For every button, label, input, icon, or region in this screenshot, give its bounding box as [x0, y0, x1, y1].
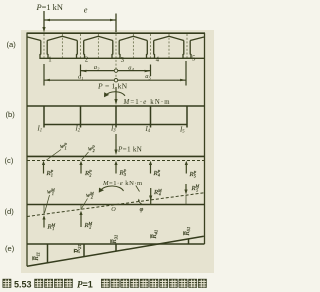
centerline tick for e dimension	[115, 14, 117, 33]
moment arrowhead	[104, 92, 109, 97]
ordinate girder 1	[47, 244, 49, 263]
rib girder 4	[147, 41, 155, 59]
tick at girder 4	[150, 65, 152, 77]
panel mid 3	[132, 34, 134, 58]
tick at girder 2	[80, 65, 82, 77]
zero line	[27, 243, 205, 245]
tick at girder 1	[43, 64, 45, 86]
moment arc M (over beam b)	[106, 92, 125, 96]
moment arc (d)	[101, 186, 124, 191]
svg-text:2: 2	[85, 57, 89, 64]
svg-text:e: e	[84, 5, 88, 14]
label R11 (rotated)	[33, 252, 41, 261]
svg-text:RM2: RM2	[84, 221, 93, 230]
svg-text:P=1 kN: P=1 kN	[36, 3, 63, 12]
soffit panel 2-3	[84, 36, 113, 40]
a5 arrowhead right	[180, 79, 185, 82]
svg-text:O: O	[111, 206, 116, 213]
svg-text:RP1: RP1	[46, 169, 54, 178]
svg-text:P=1: P=1	[77, 279, 93, 289]
svg-text:RM4: RM4	[153, 188, 162, 197]
reaction arrow R4P	[150, 164, 152, 174]
rib girder 5	[183, 41, 191, 59]
panel mid 4	[168, 34, 170, 58]
leader w2P	[82, 152, 89, 160]
a4 arrowhead right	[145, 70, 150, 73]
support tick I4	[150, 106, 152, 128]
label R51 (rotated)	[184, 227, 192, 237]
P arrow at centreline down to beam (b)	[115, 87, 117, 101]
svg-text:P=1 kN: P=1 kN	[117, 145, 143, 153]
svg-text:4: 4	[156, 57, 160, 64]
svg-text:wP1: wP1	[60, 142, 67, 151]
leader w1M	[45, 195, 50, 213]
ordinate girder 5	[188, 239, 190, 244]
soffit panel 4-5	[154, 36, 184, 40]
svg-text:RP2: RP2	[84, 169, 92, 178]
support tick I2	[80, 106, 82, 128]
ordinate girder 4	[150, 244, 152, 246]
support tick I5	[186, 106, 188, 128]
e dim arrowhead right	[110, 19, 115, 22]
caption: 图 5.53	[3, 279, 12, 288]
reaction arrow R4M (down onto deflected line)	[150, 188, 152, 205]
moment arrowhead (d)	[99, 188, 104, 193]
support tick I1	[43, 106, 45, 128]
svg-text:1: 1	[48, 57, 51, 64]
label R41 (rotated)	[151, 230, 159, 240]
svg-text:wP2: wP2	[88, 144, 95, 153]
centre circle lower	[114, 79, 117, 82]
svg-text:(d): (d)	[5, 207, 15, 216]
caption: 作用下各主梁分担的荷载	[101, 279, 110, 288]
rib girder 1	[40, 41, 48, 59]
soffit panel 1-2	[47, 36, 77, 40]
girder 5 centerline	[186, 34, 188, 58]
reaction arrow R5M (down onto deflected line)	[185, 184, 187, 191]
support tick I3	[115, 106, 117, 128]
label R21 (rotated)	[74, 244, 82, 254]
svg-text:(a): (a)	[7, 40, 17, 49]
a2 arrowhead left	[81, 70, 86, 73]
diaphragm bottom line	[48, 57, 205, 59]
dimension line a1/a5	[44, 79, 186, 81]
ordinate w2M	[80, 205, 82, 210]
angle phi arc	[139, 200, 142, 204]
page background	[0, 0, 218, 292]
left cantilever soffit	[28, 37, 41, 41]
panel mid 1	[61, 34, 63, 58]
deck top slab line	[27, 32, 206, 34]
panel mid 2	[97, 34, 99, 58]
rotated deflected line (d) dashed	[27, 193, 205, 217]
beam top line	[27, 105, 205, 107]
reaction arrow R2P	[80, 164, 82, 174]
svg-text:RP5: RP5	[189, 170, 197, 179]
girder 4 centerline	[150, 34, 152, 58]
deflected line (c) dashed	[27, 160, 205, 162]
ordinate w1M	[43, 205, 45, 215]
svg-text:M=1·e kN·m: M=1·e kN·m	[123, 99, 171, 106]
left border reference line (full height)	[26, 33, 28, 266]
reaction arrow R2M (up)	[80, 214, 82, 227]
svg-text:5.53: 5.53	[14, 279, 32, 289]
svg-text:RM1: RM1	[47, 222, 56, 231]
soffit panel 3-4	[119, 36, 147, 40]
girder 1 centerline	[43, 34, 45, 58]
influence line (inclined)	[27, 236, 204, 266]
leader w2M	[82, 199, 88, 209]
ordinate girder 2	[83, 244, 85, 257]
reaction arrow R1M (up)	[43, 219, 45, 228]
reaction arrow R1P	[43, 164, 45, 174]
svg-text:wM1: wM1	[47, 187, 55, 196]
svg-text:RM5: RM5	[191, 184, 200, 193]
small leader stroke near R4M	[136, 186, 140, 192]
label R31 (rotated)	[111, 235, 119, 245]
svg-text:RP3: RP3	[119, 168, 127, 177]
P arrow (c)	[115, 134, 117, 151]
ordinate girder 3	[115, 244, 117, 251]
reaction arrow R5P	[185, 164, 187, 174]
right cantilever soffit	[190, 37, 204, 41]
a1 arrowhead left	[45, 79, 50, 82]
beam axis line (d)	[27, 204, 205, 206]
eccentricity dimension line e	[44, 19, 116, 21]
reaction arrow R3P	[115, 164, 117, 174]
svg-text:(e): (e)	[5, 244, 15, 253]
tick at girder 5	[185, 61, 187, 86]
svg-text:3: 3	[121, 57, 125, 64]
svg-text:RP4: RP4	[153, 169, 161, 178]
content area wash	[21, 30, 214, 273]
dimension line a2/a4	[81, 70, 151, 72]
svg-text:5: 5	[192, 56, 196, 63]
girder 2 centerline	[80, 34, 82, 58]
svg-text:wM2: wM2	[86, 191, 94, 200]
ordinate w5M	[185, 195, 187, 205]
svg-text:P = 1 kN: P = 1 kN	[97, 81, 128, 90]
beam axis line (c)	[27, 155, 205, 157]
svg-text:(c): (c)	[5, 156, 14, 165]
beam bottom line	[44, 124, 187, 126]
e dim arrowhead left	[45, 19, 50, 22]
load P=1kN arrow (top, over girder 1)	[43, 11, 45, 29]
arrowhead of P (down)	[42, 27, 45, 33]
centre circle upper	[114, 69, 117, 72]
girder 3 / deck centerline	[115, 34, 117, 79]
dashed centerlines in cross-section	[44, 34, 187, 79]
rib girder 3	[112, 41, 120, 59]
leader w1P	[47, 150, 62, 161]
rib girder 2	[77, 41, 85, 59]
svg-text:φ: φ	[140, 206, 144, 213]
caption: 偏心荷载	[34, 279, 43, 288]
svg-text:(b): (b)	[6, 110, 16, 119]
right border reference line	[204, 33, 206, 244]
